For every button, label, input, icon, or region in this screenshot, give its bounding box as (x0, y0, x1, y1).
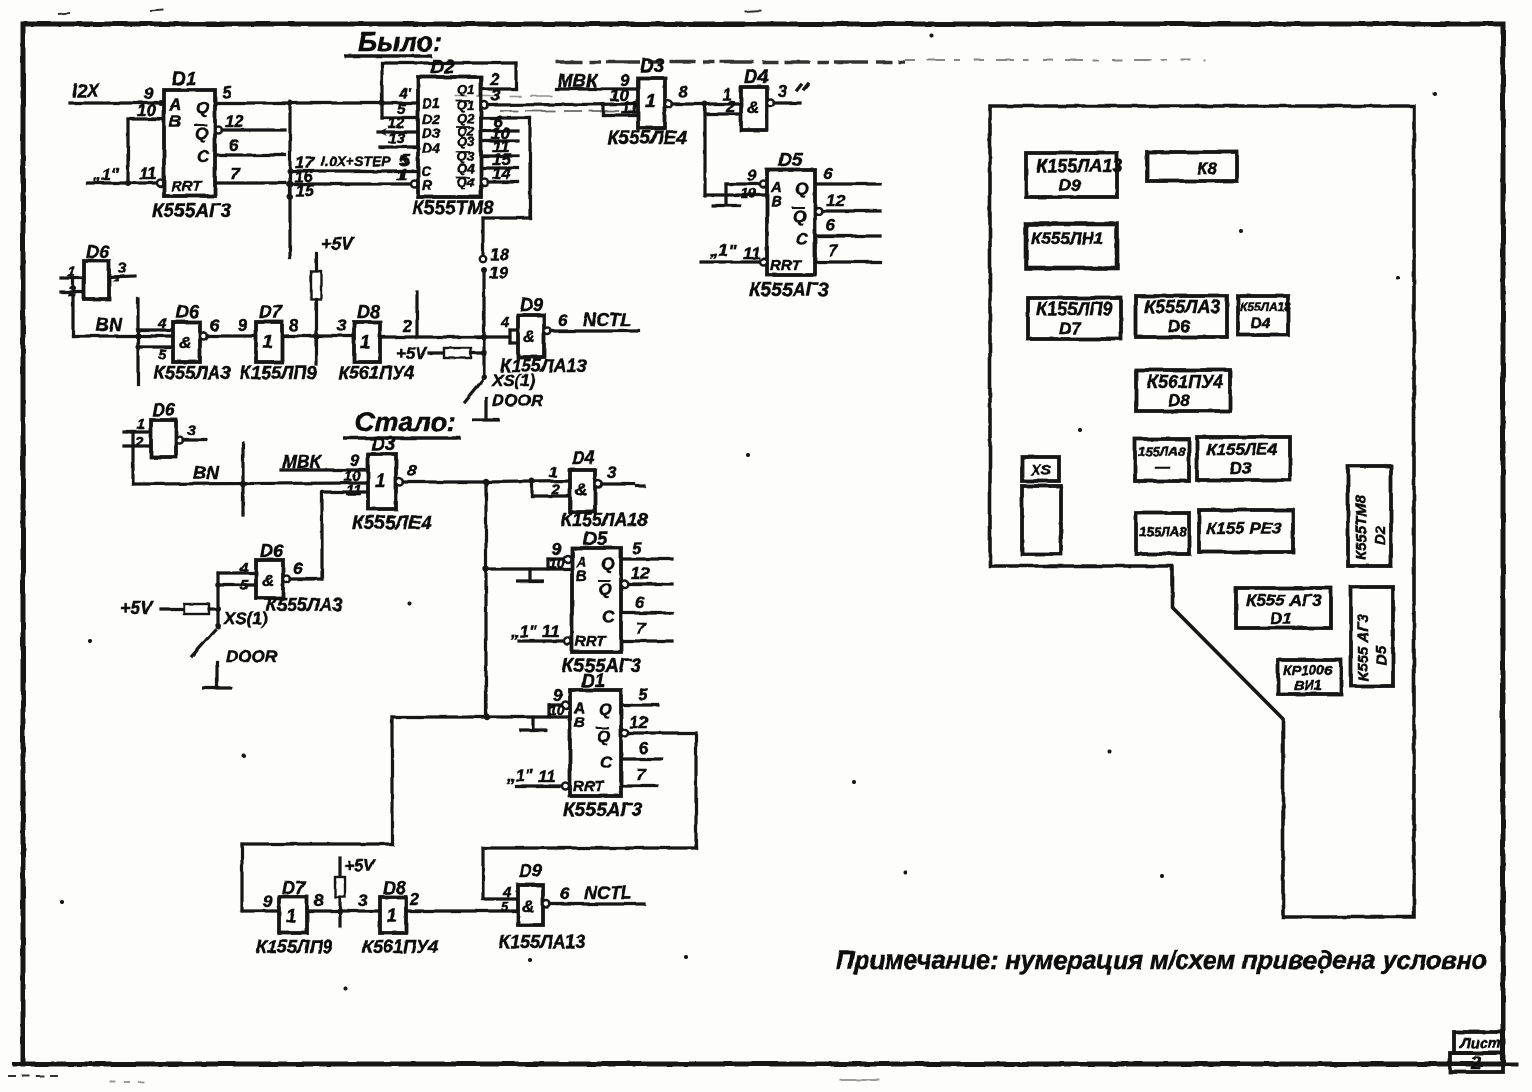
svg-text:XS(1): XS(1) (223, 609, 268, 628)
svg-text:Q: Q (601, 554, 614, 573)
wire D9.6 NCTL output (544, 328, 551, 335)
svg-text:19: 19 (489, 263, 508, 282)
svg-text:C: C (602, 607, 615, 626)
wire node19 down to XS(1) (482, 270, 485, 377)
svg-text:&: & (522, 897, 534, 916)
svg-text:RRT: RRT (575, 633, 607, 650)
svg-text:6: 6 (558, 311, 568, 330)
PCB box К561ПУ4 D8 (1136, 370, 1230, 411)
svg-text:D3: D3 (640, 56, 665, 77)
svg-text:ХS: ХS (1030, 462, 1051, 479)
svg-text:8: 8 (678, 82, 688, 101)
svg-text:Q4: Q4 (457, 161, 475, 176)
resistor +5V horizontal (XS pull) (396, 344, 484, 363)
svg-text:D3: D3 (422, 125, 440, 141)
svg-text:10: 10 (549, 555, 565, 571)
svg-text:1: 1 (375, 471, 386, 492)
wire main vertical from D3.8 node down (484, 482, 487, 717)
svg-text:D8: D8 (383, 878, 406, 898)
svg-text:9: 9 (747, 166, 757, 185)
svg-text:D6: D6 (86, 242, 110, 262)
svg-text:&: & (747, 98, 759, 117)
svg-text:К555АГ3: К555АГ3 (563, 800, 643, 821)
wire D6 pins down to BN (71, 278, 74, 336)
IC D6 К555ЛА3 gate (Стало) (218, 541, 342, 615)
svg-text:D7: D7 (282, 878, 306, 898)
svg-text:D2: D2 (430, 57, 455, 78)
svg-text:6: 6 (560, 884, 570, 903)
svg-text:D6: D6 (176, 302, 200, 322)
svg-text:Лист: Лист (1459, 1035, 1501, 1052)
svg-text:NCTL: NCTL (583, 310, 631, 330)
PCB box К555ТМ8 D2 (vertical) (1348, 466, 1391, 566)
switch XS(1) DOOR (Было) (465, 371, 544, 420)
svg-text:D6: D6 (260, 541, 284, 561)
svg-text:2: 2 (409, 890, 420, 909)
svg-text:7: 7 (636, 619, 647, 638)
PCB box К155ЛЕ4 D3 (1197, 437, 1290, 480)
svg-text:К555ЛЕ4: К555ЛЕ4 (607, 128, 687, 149)
svg-text:7: 7 (828, 241, 839, 260)
svg-text:B: B (576, 568, 587, 585)
svg-text:5: 5 (638, 685, 648, 704)
svg-text:+5V: +5V (396, 344, 428, 363)
wire D1.Q pin5 to D2.D1 (215, 101, 418, 104)
svg-text:Q: Q (599, 700, 612, 719)
D5 right outputs (Стало) (621, 539, 672, 641)
svg-text:1: 1 (396, 167, 404, 184)
svg-text:К555 АГ3: К555 АГ3 (1246, 591, 1322, 610)
svg-text:D9: D9 (520, 295, 543, 315)
svg-text:Было:: Было: (358, 27, 442, 57)
svg-text:5: 5 (222, 83, 232, 102)
svg-text:D3: D3 (1230, 459, 1252, 478)
svg-text:D9: D9 (1059, 176, 1081, 195)
svg-text:„1": „1" (506, 766, 534, 785)
wire bus down to node 18 (480, 118, 530, 282)
wire D6.6 to D7.9 (200, 333, 207, 340)
wire junction to D4 pins 1 2 (705, 85, 741, 196)
svg-text:9: 9 (263, 892, 273, 911)
svg-text:11: 11 (743, 244, 761, 263)
svg-text:2: 2 (725, 97, 736, 116)
svg-text:Q: Q (195, 124, 208, 143)
svg-text:3: 3 (778, 82, 788, 101)
svg-text:6: 6 (210, 316, 220, 335)
svg-text:2: 2 (134, 434, 144, 451)
stub tick (415, 292, 418, 337)
wire D6.6 up to D3.11 (Стало) (283, 576, 290, 583)
wire D9.6 NCTL (Стало) (543, 901, 550, 908)
IC D1 К555АГ3 (Стало) (563, 671, 643, 821)
svg-text:Q: Q (597, 727, 610, 746)
svg-text:К555ЛА3: К555ЛА3 (154, 363, 230, 383)
svg-text:&: & (262, 571, 274, 590)
svg-text:10: 10 (549, 702, 565, 718)
svg-text:9: 9 (620, 71, 630, 90)
IC D1 К555АГ3 (Было) (137, 69, 232, 222)
IC D6 К555ЛА3 gate (Было) (138, 302, 230, 383)
wire D3.8 output (665, 101, 672, 108)
svg-text:„1": „1" (510, 622, 538, 641)
IC D5 К555АГ3 (Было) (749, 150, 829, 301)
svg-text:Q3: Q3 (457, 134, 475, 149)
svg-text:—: — (1154, 459, 1171, 476)
svg-text:Примечание: нумерация м/схем п: Примечание: нумерация м/схем приведена у… (836, 947, 1487, 975)
svg-text:К555ЛА3: К555ЛА3 (1144, 297, 1220, 317)
svg-text:5: 5 (501, 899, 509, 914)
svg-text:&: & (179, 333, 191, 352)
svg-text:D7: D7 (259, 302, 283, 322)
svg-text:D4: D4 (572, 448, 595, 468)
svg-text:5: 5 (632, 539, 642, 558)
svg-text:B: B (574, 714, 585, 731)
wire STEP to D2.C pin5 (290, 169, 418, 172)
IC D9 К155ЛА13 (Было) (500, 295, 586, 376)
svg-text:1: 1 (360, 332, 370, 352)
PCB connector box (1022, 486, 1061, 554)
wire D2.Q2 pin6 to bus (481, 116, 530, 119)
IC D6 connector gate (Стало top-left) (124, 400, 206, 457)
svg-text:I2X: I2X (72, 81, 100, 101)
svg-text:10: 10 (741, 185, 757, 201)
wire const 1 to D1.H pin11 (87, 181, 157, 184)
wire D6 pins down to BN (Стало) (131, 432, 134, 484)
wire D3.8 (Стало) (396, 479, 403, 486)
heading Было: (344, 27, 442, 57)
IC D8 К561ПУ4 (Стало) (362, 878, 438, 957)
svg-text:&: & (523, 327, 535, 346)
svg-text:D5: D5 (778, 150, 803, 171)
svg-text:„1": „1" (92, 165, 120, 184)
IC D5 К555АГ3 (Стало) (562, 529, 642, 677)
svg-text:8: 8 (314, 891, 324, 910)
wire D4.3 output (767, 100, 774, 107)
PCB box 155ЛА8 (2) (1136, 513, 1189, 554)
svg-text:К555ТМ8: К555ТМ8 (412, 198, 494, 219)
wire D8.2 to D9 (380, 335, 510, 338)
svg-text:Q: Q (795, 179, 808, 198)
wire D4.pin1 tie down to D5.B (705, 193, 767, 196)
svg-text:„1": „1" (709, 241, 737, 260)
svg-text:4: 4 (500, 314, 510, 331)
svg-text:12: 12 (225, 112, 244, 131)
PCB box К155ЛП9 D7 (1028, 298, 1121, 339)
switch XS(1) DOOR (Стало) (192, 609, 278, 688)
feedback loop D2.Q1 pin2 to D2.D2 pin5 (382, 63, 516, 118)
PCB box К155ЛА18 D4 (1238, 296, 1291, 335)
svg-text:D4: D4 (744, 67, 769, 88)
svg-text:2: 2 (402, 317, 413, 336)
IC D3 К555ЛЕ4 (Было) (607, 56, 687, 149)
svg-text:C: C (600, 753, 613, 772)
svg-text:DOOR: DOOR (492, 391, 544, 410)
IC D6 connector gate (Было, top-left) (61, 242, 135, 300)
svg-text:2: 2 (550, 481, 560, 498)
D1 pin7 output (215, 181, 285, 184)
svg-text:К155ЛА13: К155ЛА13 (499, 932, 585, 952)
svg-text:3: 3 (118, 260, 127, 277)
+5V resistor (Стало) (120, 598, 218, 618)
PCB box К555ЛН1 (1026, 224, 1117, 268)
svg-text:2: 2 (1470, 1053, 1481, 1073)
svg-text:12: 12 (631, 564, 650, 583)
svg-text:8: 8 (289, 316, 299, 335)
svg-text:КР1006: КР1006 (1283, 662, 1332, 678)
D5 right outputs (815, 164, 880, 262)
sheet number box Лист 2 (1450, 1032, 1503, 1073)
wire D7.8 to D8.3 (Стало) (307, 909, 380, 912)
svg-text:К555 АГ3: К555 АГ3 (1355, 614, 1372, 681)
IC D3 К555ЛЕ4 (Стало) (352, 434, 432, 534)
svg-text:BN: BN (193, 463, 220, 483)
PCB box К155 РЕ3 (1199, 510, 1293, 552)
svg-text:Стало:: Стало: (355, 407, 456, 437)
D1 right outputs (Стало) (621, 685, 696, 786)
svg-text:Q: Q (793, 207, 806, 226)
IC D9 К155ЛА13 (Стало) (499, 861, 585, 952)
svg-text:C: C (197, 147, 210, 166)
svg-text:11: 11 (139, 164, 157, 183)
svg-text:&: & (575, 480, 587, 499)
svg-text:D3: D3 (371, 434, 396, 455)
svg-text:К555ТМ8: К555ТМ8 (1353, 495, 1370, 560)
resistor +5V (Стало chain) (335, 856, 376, 926)
wire D7.8 to D8.3 (282, 334, 354, 337)
svg-text:ВИ1: ВИ1 (1294, 677, 1322, 693)
svg-text:DOOR: DOOR (226, 647, 278, 666)
svg-text:К555АГ3: К555АГ3 (152, 201, 232, 222)
svg-text:R: R (422, 177, 433, 193)
svg-text:К155ЛП9: К155ЛП9 (240, 363, 316, 383)
svg-text:B: B (169, 112, 181, 131)
svg-text:+5V: +5V (344, 856, 376, 875)
svg-text:1: 1 (549, 464, 557, 481)
vertical tap bus with nodes 17 16 15 (287, 103, 316, 258)
svg-text:9: 9 (238, 316, 248, 335)
IC D4 К155ЛА18 (Было) (741, 67, 769, 130)
svg-text:14: 14 (492, 164, 511, 183)
svg-text:К155 РЕ3: К155 РЕ3 (1206, 519, 1282, 538)
svg-text:I.0X+STEP: I.0X+STEP (321, 153, 391, 169)
PCB box К155ЛА13 D9 (1026, 153, 1122, 197)
svg-text:3: 3 (607, 463, 617, 482)
svg-text:NCTL: NCTL (584, 883, 632, 903)
svg-text:11: 11 (621, 98, 639, 117)
svg-text:6: 6 (293, 559, 303, 578)
wire tie D3 pins 10-11 (601, 104, 604, 115)
svg-text:D9: D9 (519, 861, 542, 881)
svg-text:7: 7 (230, 164, 241, 183)
svg-text:1: 1 (645, 91, 656, 112)
wire to D2.R pin1 (290, 182, 411, 185)
svg-text:К155ЛП9: К155ЛП9 (256, 937, 332, 957)
wire D2.D4 pin13 (380, 145, 418, 148)
svg-text:BN: BN (96, 315, 123, 335)
wire into D9 pins 4 5 (500, 314, 518, 343)
tie mark at BN node (241, 443, 244, 515)
svg-text:D1: D1 (1270, 609, 1292, 628)
wire tie pins 4,5 and +5V node (216, 573, 219, 624)
svg-text:К561ПУ4: К561ПУ4 (338, 363, 414, 383)
wire into D5.B and ground at D5.A (Стало) (486, 540, 572, 581)
svg-text:К155ЛА13: К155ЛА13 (500, 356, 586, 376)
svg-text:10: 10 (137, 101, 156, 120)
IC D2 К555ТМ8 (Было) (388, 57, 494, 219)
svg-text:RRT: RRT (573, 778, 605, 795)
PCB box К555АГ3 D1 (1236, 588, 1331, 628)
PCB box 155ЛА8 (1135, 439, 1189, 481)
svg-text:D8: D8 (1168, 391, 1190, 410)
svg-text:12: 12 (826, 191, 845, 210)
svg-text:6: 6 (823, 164, 833, 183)
svg-text:К55ЛА18: К55ЛА18 (1240, 300, 1291, 314)
svg-text:3: 3 (358, 891, 368, 910)
svg-text:6: 6 (826, 216, 836, 235)
IC D7 К155ЛП9 (Стало) (256, 878, 332, 957)
svg-text:Q: Q (599, 580, 612, 599)
svg-text:RRT: RRT (770, 257, 802, 274)
IC D4 К155ЛА18 (Стало) (561, 448, 647, 530)
svg-text:4': 4' (398, 85, 411, 102)
svg-text:К155ЛА18: К155ЛА18 (561, 510, 647, 530)
svg-text:D7: D7 (1059, 319, 1082, 338)
svg-text:B: B (771, 193, 782, 210)
PCB box К555АГ3 D5 (vertical) (1351, 587, 1393, 686)
svg-text:К155ЛП9: К155ЛП9 (1036, 299, 1112, 319)
svg-text:6: 6 (639, 739, 649, 758)
svg-text:+5V: +5V (321, 234, 356, 254)
svg-text:К555АГ3: К555АГ3 (749, 280, 829, 301)
wire I2X to D1.A pin9 (70, 101, 164, 104)
heading Стало: (343, 407, 461, 438)
wire loop D1.12 to D9.4 (Стало) (483, 733, 696, 899)
svg-text:D6: D6 (1168, 317, 1190, 336)
svg-text:D4: D4 (422, 140, 440, 156)
svg-text:К555ЛН1: К555ЛН1 (1031, 229, 1103, 248)
IC D8 К561ПУ4 (Было) (338, 302, 414, 383)
svg-text:155ЛА8: 155ЛА8 (1138, 444, 1186, 459)
svg-text:К8: К8 (1197, 159, 1217, 178)
svg-text:К155ЛЕ4: К155ЛЕ4 (1206, 440, 1278, 459)
wire D8.2 to D9.5 (Стало) (406, 909, 518, 912)
svg-text:155ЛА8: 155ЛА8 (1139, 524, 1187, 539)
svg-text:К555ЛА3: К555ЛА3 (266, 595, 342, 615)
svg-text:8: 8 (407, 461, 417, 480)
svg-text:D5: D5 (1373, 645, 1390, 665)
svg-text:Q1: Q1 (457, 82, 474, 97)
PCB box XS (1022, 457, 1059, 481)
PCB box КР1006 ВИ1 (1278, 660, 1341, 694)
svg-text:D1: D1 (422, 95, 440, 111)
svg-text:К155ЛА13: К155ЛА13 (1036, 156, 1122, 176)
svg-text:1: 1 (286, 906, 296, 926)
D1 pin6 output (215, 153, 285, 156)
wire left path from D1.B junction to D7.9 (242, 717, 487, 911)
svg-text:3: 3 (187, 422, 196, 439)
wire pin10-pin11 tie (126, 119, 129, 183)
svg-text:7: 7 (636, 765, 647, 784)
wire to D4 pins (Стало) (486, 464, 570, 498)
svg-text:5: 5 (158, 346, 166, 362)
svg-text:12: 12 (629, 713, 648, 732)
svg-text:D4: D4 (1251, 315, 1271, 332)
svg-text:RRT: RRT (171, 178, 203, 195)
D2 right outputs pins 6 10 11 15 14 (481, 112, 518, 186)
svg-text:К561ПУ4: К561ПУ4 (1147, 372, 1223, 392)
PCB box К8 (1147, 152, 1237, 181)
svg-text:D2: D2 (1372, 525, 1389, 545)
wire into D1.B and ground at D1.A (Стало) (487, 686, 570, 730)
resistor R pullup +5V (Было chain) (311, 234, 356, 364)
svg-text:К561ПУ4: К561ПУ4 (362, 937, 438, 957)
D1 pin12 output (215, 127, 222, 134)
svg-text:11: 11 (542, 622, 560, 641)
vertical tie at BN node (136, 299, 139, 384)
svg-text:4: 4 (157, 315, 167, 332)
svg-text:1: 1 (387, 906, 397, 926)
wire D4.3 output (Стало) (595, 481, 602, 488)
wire D1.B pin10 (128, 117, 164, 120)
svg-text:3: 3 (337, 316, 347, 335)
svg-text:D1: D1 (172, 69, 196, 90)
board outline (990, 106, 1414, 917)
svg-text:6: 6 (635, 593, 645, 612)
svg-text:11: 11 (538, 767, 556, 786)
ground stub at D5.A (711, 166, 767, 206)
svg-text:1: 1 (263, 332, 273, 352)
wire МВК to D3.9 (556, 87, 638, 90)
PCB box К555ЛА3 D6 (1136, 296, 1227, 337)
svg-text:Q: Q (196, 98, 209, 117)
svg-text:6: 6 (229, 136, 239, 155)
IC D7 К155ЛП9 (Было) (240, 302, 316, 383)
svg-text:D6: D6 (152, 400, 176, 420)
svg-text:D8: D8 (357, 302, 380, 322)
scan noise artifacts (8, 10, 1205, 1082)
svg-text:К555ЛЕ4: К555ЛЕ4 (352, 513, 432, 534)
wire D2.D3 pin12 (378, 130, 418, 133)
wire D2.Q1bar pin3 to D3 (481, 102, 488, 109)
svg-text:+5V: +5V (120, 598, 155, 618)
svg-text:C: C (796, 230, 809, 249)
svg-text:18: 18 (490, 245, 509, 264)
